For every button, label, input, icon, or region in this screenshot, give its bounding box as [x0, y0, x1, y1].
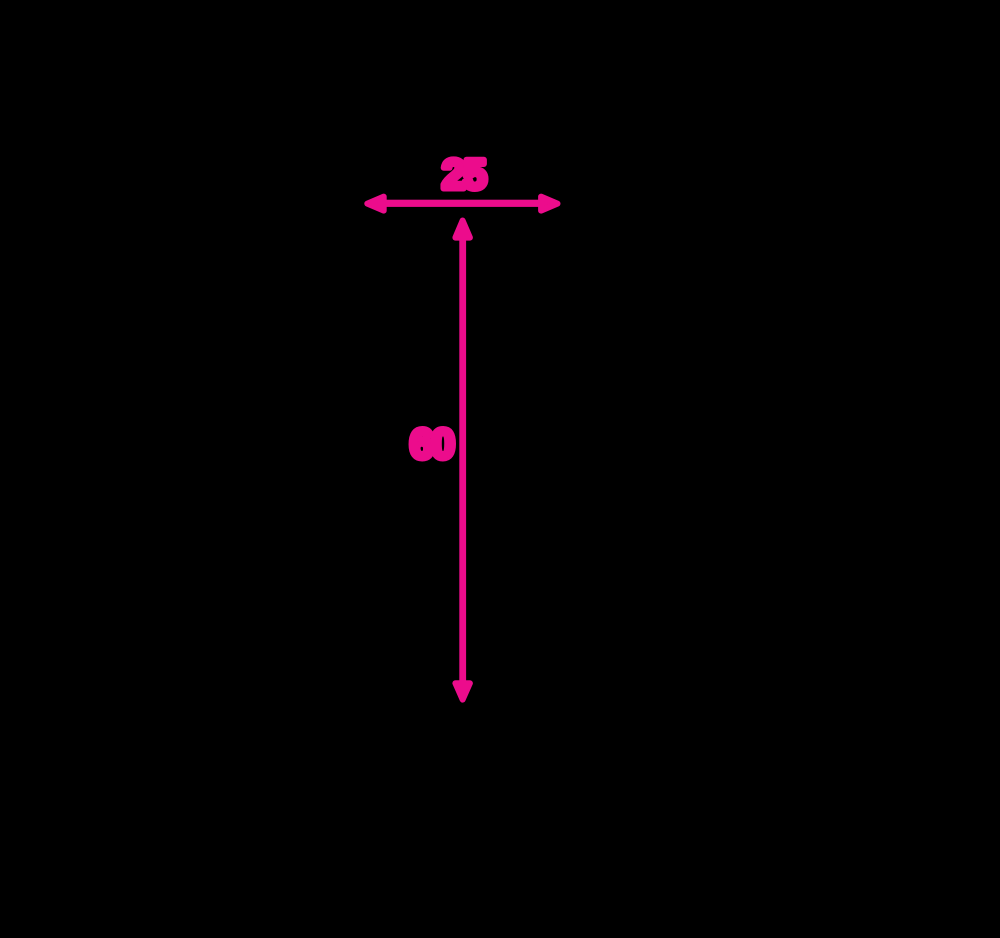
- svg-text:25: 25: [442, 151, 486, 198]
- dimension arrow 60 (vertical double-headed): [455, 221, 470, 700]
- dimension arrow 25 (horizontal double-headed): [367, 197, 557, 211]
- svg-text:60: 60: [410, 420, 453, 467]
